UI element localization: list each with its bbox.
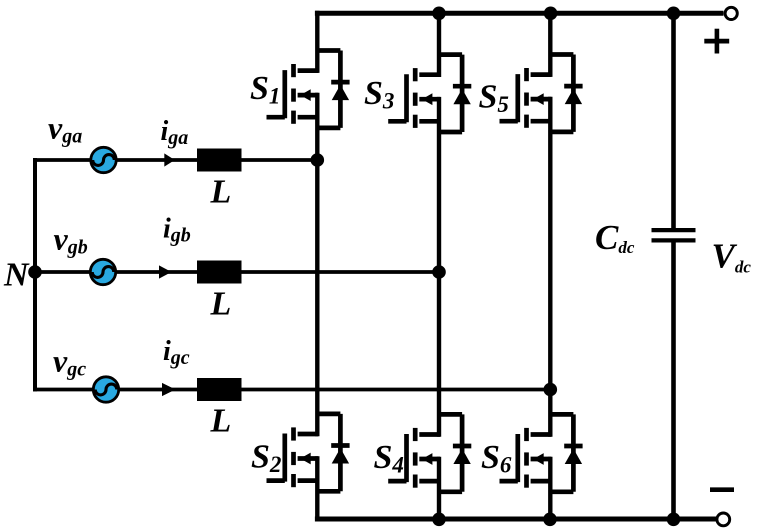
svg-text:igb: igb [163,214,191,247]
wire: leg 3 drain segment (top bus to S5) [548,11,552,77]
wire: positive DC bus (top rail) [315,11,724,16]
junction: phase c to leg 3 midpoint [544,383,558,397]
svg-text:vgc: vgc [53,343,86,381]
wire: capacitor bottom lead [671,240,676,521]
ac source v_gc [93,377,118,402]
svg-text:L: L [210,174,232,211]
svg-text:S4: S4 [374,439,404,478]
transistor S5 (MOSFET with body diode) [500,55,583,132]
svg-text:S5: S5 [479,79,509,118]
svg-text:Cdc: Cdc [595,218,635,257]
wire: leg 2 midpoint segment (S3 source to S4 drain, phase b node) [437,97,441,437]
wire: left neutral vertical bus [33,158,37,391]
wire: negative DC bus (bottom rail) [315,517,716,522]
current arrow i_ga [164,153,175,166]
wire: leg 3 midpoint segment (S5 source to S6 drain, phase c node) [548,97,552,437]
inductor L (phase a) [197,149,242,172]
terminal: DC negative output [717,513,730,526]
junction: phase a to leg 1 midpoint [311,153,325,167]
svg-text:L: L [210,286,232,323]
current arrow i_gb [159,265,172,278]
ac source v_gb [90,259,115,284]
wire: leg 2 drain segment (top bus to S3) [437,11,441,77]
wire: leg 1 drain segment (top bus to S1) [315,11,319,73]
label - polarity [710,487,734,492]
junction: capacitor top on top bus [667,7,681,21]
transistor S1 (MOSFET with body diode) [267,51,350,128]
current arrow i_gc [162,383,176,396]
inductor L (phase b) [197,261,242,284]
wire: leg 1 source segment (S2 to bottom bus) [315,456,319,521]
inductor L (phase c) [197,378,242,401]
terminal: DC positive output [725,7,737,19]
svg-text:L: L [210,403,232,440]
wire: capacitor top lead [671,11,676,230]
ac source v_ga [91,147,116,172]
transistor S2 (MOSFET with body diode) [267,414,350,491]
transistor S4 (MOSFET with body diode) [388,414,471,491]
svg-text:igc: igc [163,336,190,369]
wire: leg 2 source segment (S4 to bottom bus) [437,457,441,522]
svg-text:S3: S3 [364,75,394,114]
transistor S3 (MOSFET with body diode) [388,55,471,132]
junction: leg 3 source on bottom bus [543,513,557,527]
svg-text:S6: S6 [481,439,512,478]
junction: leg 3 drain on top bus [544,7,558,21]
junction: phase b to leg 2 midpoint [432,265,446,279]
junction: capacitor bottom on bottom bus [667,513,681,527]
svg-text:Vdc: Vdc [712,237,752,277]
capacitor C_dc [652,230,696,240]
wire: leg 3 source segment (S6 to bottom bus) [548,457,552,522]
transistor S6 (MOSFET with body diode) [500,414,583,491]
wire: phase b line [33,270,439,274]
svg-text:S2: S2 [251,439,281,478]
junction: leg 2 drain on top bus [432,7,446,21]
wire: leg 1 midpoint segment (S1 source to S2 drain, phase a node) [315,93,319,437]
wire: phase c line [33,388,550,392]
junction: leg 2 source on bottom bus [432,513,446,527]
label + polarity [704,29,729,54]
svg-text:S1: S1 [250,70,280,109]
svg-text:iga: iga [161,116,189,149]
svg-text:vgb: vgb [54,221,88,259]
svg-text:N: N [3,257,30,294]
svg-text:vga: vga [48,110,82,148]
wire: phase a line [33,158,317,162]
junction: node N on neutral bus [28,265,42,279]
